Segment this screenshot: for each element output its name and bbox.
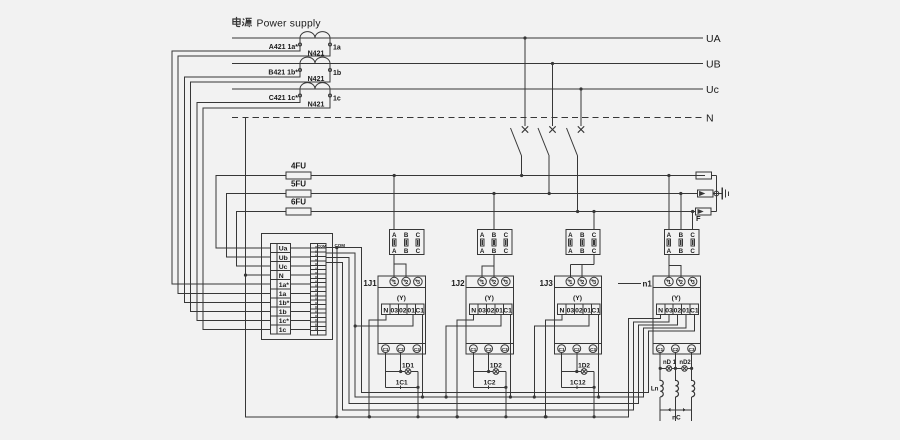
- svg-text:C1: C1: [559, 347, 565, 352]
- meter 1J3 terminals 1 2 3: [566, 277, 575, 286]
- svg-text:C3: C3: [502, 347, 508, 352]
- svg-text:02: 02: [575, 307, 583, 314]
- node 1J2 lamp node junctions: [504, 386, 507, 389]
- svg-text:N421: N421: [308, 102, 325, 109]
- wire QA to fuse line: [521, 156, 523, 176]
- svg-text:C3: C3: [689, 347, 695, 352]
- svg-text:02: 02: [674, 307, 682, 314]
- svg-text:1c: 1c: [333, 96, 341, 103]
- svg-text:1C1: 1C1: [396, 380, 408, 387]
- svg-text:nD2: nD2: [679, 360, 691, 366]
- fuse test block n1: [664, 230, 698, 255]
- lamp nD2: [682, 366, 688, 372]
- svg-text:C3: C3: [414, 347, 420, 352]
- svg-text:1: 1: [393, 280, 396, 286]
- wire 1J1 block to terminals 1,2: [393, 255, 395, 278]
- meter n1 terminal row N 03 02 01 C1: [656, 304, 664, 314]
- wire QC to fuse line: [577, 156, 579, 212]
- wire COM bus 4 (strip to bottom bus to meter n1 terminal): [326, 263, 669, 410]
- wire phase UB bus: [232, 63, 703, 65]
- svg-text:UA: UA: [706, 33, 721, 45]
- svg-text:B: B: [492, 232, 497, 239]
- wire 5FU feed from terminal row Ub: [227, 194, 287, 258]
- node 1J1 01 riser junction: [354, 324, 357, 327]
- svg-text:N: N: [658, 307, 663, 314]
- svg-text:A: A: [392, 248, 397, 255]
- wire CT secondary 1c to terminal row: [203, 89, 330, 329]
- fuse 4FU: [286, 172, 311, 179]
- svg-text:C: C: [416, 232, 421, 239]
- svg-text:C: C: [504, 232, 509, 239]
- node phase tap QB: [551, 62, 554, 65]
- svg-text:B421 1b*: B421 1b*: [268, 70, 298, 77]
- svg-text:B: B: [679, 232, 684, 239]
- svg-text:N: N: [279, 273, 284, 280]
- svg-text:1c*: 1c*: [279, 318, 290, 325]
- svg-text:Ua: Ua: [279, 246, 288, 253]
- wire arrester F2 output: [713, 193, 717, 195]
- node feed tap 1J1: [393, 174, 396, 177]
- wire n1 block to terminal 1 and 2: [668, 255, 670, 278]
- svg-text:2: 2: [405, 280, 408, 286]
- svg-text:C1: C1: [690, 307, 699, 314]
- label n1 leader: [618, 283, 641, 285]
- inductor coil L3 of Ln: [692, 380, 695, 397]
- node 1J3 lamp node junctions: [593, 386, 596, 389]
- svg-text:1D2: 1D2: [490, 362, 502, 369]
- node 1J3 C1 bus junction: [597, 395, 600, 398]
- switch QC contact cross: [578, 126, 584, 132]
- wire 6FU feed from terminal row Uc: [237, 212, 287, 267]
- wire CT secondary 1c* to terminal row: [197, 89, 300, 320]
- meter n1 terminals C1 C2 C3: [656, 345, 664, 353]
- wire feed n1 phase B: [680, 194, 682, 230]
- svg-text:3: 3: [417, 280, 420, 286]
- wire 6FU output line: [311, 211, 696, 213]
- switch QB contact cross: [549, 126, 555, 132]
- node 1J3 N bus junction: [544, 415, 547, 418]
- svg-text:(Y): (Y): [485, 295, 494, 302]
- node A421 secondary terminal: [329, 43, 332, 46]
- svg-text:B: B: [580, 248, 585, 255]
- node n1 lamp row junctions: [659, 367, 662, 370]
- svg-text:C2: C2: [398, 347, 404, 352]
- svg-text:02: 02: [487, 307, 495, 314]
- node phase tap QA: [523, 36, 526, 39]
- svg-text:N: N: [383, 307, 388, 314]
- wire 1J2 lamp node to N bus: [505, 372, 507, 417]
- svg-text:C1: C1: [383, 347, 389, 352]
- svg-text:2: 2: [581, 280, 584, 286]
- lamp nD1: [666, 366, 672, 372]
- switch QC blade: [567, 128, 578, 156]
- node 1J1 C2 lamp junction: [399, 370, 402, 373]
- ground symbol: [722, 188, 728, 200]
- svg-text:B: B: [580, 232, 585, 239]
- svg-text:B: B: [679, 248, 684, 255]
- node 1J2 N bus junction: [456, 415, 459, 418]
- lamp 1D1: [405, 369, 411, 375]
- wire CT secondary 1b to terminal row: [191, 64, 331, 312]
- svg-text:Power supply: Power supply: [257, 19, 322, 30]
- lamp 1D2: [581, 369, 587, 375]
- wire QB to fuse line: [548, 156, 550, 194]
- node 1J1 C1 bus junction: [421, 395, 424, 398]
- node phase tap QC: [579, 87, 582, 90]
- meter 1J1 terminal row N 03 02 01 C1: [382, 304, 390, 314]
- fuse 6FU: [286, 208, 311, 215]
- svg-text:nC: nC: [672, 415, 681, 422]
- svg-text:1C12: 1C12: [570, 380, 586, 387]
- wire 1J1 C1 down: [385, 353, 387, 388]
- terminal strip COM row lines: [311, 247, 327, 249]
- wire feed 1J3 from fuse line to test block: [593, 212, 595, 230]
- svg-text:B: B: [404, 248, 409, 255]
- wire 1J3 lamp row: [562, 371, 582, 373]
- wire QB drop: [552, 64, 554, 126]
- svg-text:COM: COM: [317, 245, 326, 249]
- wire CT secondary 1a* to terminal row: [172, 38, 300, 284]
- meter 1J1 terminals 1 2 3: [390, 277, 399, 286]
- svg-text:N: N: [706, 113, 714, 125]
- svg-text:Uc: Uc: [279, 264, 288, 271]
- wire 1J1 lamp node to N bus: [417, 372, 419, 417]
- inductor coil L1 of Ln: [660, 380, 663, 397]
- svg-text:01: 01: [584, 307, 592, 314]
- svg-text:A: A: [667, 248, 672, 255]
- svg-text:5FU: 5FU: [291, 180, 306, 189]
- svg-text:C2: C2: [486, 347, 492, 352]
- svg-text:1b: 1b: [333, 70, 341, 77]
- meter 1J3 terminals C1 C2 C3: [558, 345, 566, 353]
- svg-text:1: 1: [569, 280, 572, 286]
- svg-text:03: 03: [478, 307, 486, 314]
- terminal strip COM wire stubs: [315, 246, 317, 331]
- inductor coil L2 of Ln: [675, 380, 678, 397]
- svg-text:02: 02: [399, 307, 407, 314]
- svg-text:1b: 1b: [279, 309, 287, 316]
- svg-text:1D1: 1D1: [402, 362, 414, 369]
- fuse 5FU: [286, 190, 311, 197]
- meter n1 terminals 1 2 3: [665, 277, 674, 286]
- terminal strip COM outline: [311, 244, 327, 336]
- wire 4FU feed from terminal row Ua: [216, 176, 286, 249]
- svg-text:1a: 1a: [333, 45, 341, 52]
- wire phase Uc bus: [232, 88, 703, 90]
- svg-text:4FU: 4FU: [291, 162, 306, 171]
- svg-text:(Y): (Y): [397, 295, 406, 302]
- wire feed n1 phase C: [692, 212, 694, 230]
- svg-text:Ub: Ub: [279, 255, 288, 262]
- wire feed 1J2 from fuse line to test block: [493, 194, 495, 230]
- fuse test block 1J3: [566, 230, 600, 255]
- wire n1 C3 down: [691, 353, 693, 381]
- current transformer B421 winding: [300, 57, 330, 63]
- wire 1J2 C1 down: [472, 353, 474, 388]
- svg-text:3: 3: [692, 280, 695, 286]
- node QA junction: [520, 174, 523, 177]
- svg-text:03: 03: [665, 307, 673, 314]
- node feed tap n1 phase C: [691, 210, 694, 213]
- svg-text:(Y): (Y): [672, 295, 681, 302]
- wire 1J3 block to terminals 1,2: [593, 255, 595, 265]
- meter 1J2 terminals C1 C2 C3: [470, 345, 478, 353]
- node feed tap 1J3: [592, 210, 595, 213]
- wire 1J2 cell N to N bus: [457, 315, 474, 417]
- wire 1J2 block to terminals 1,2: [493, 255, 495, 278]
- svg-text:C: C: [690, 248, 695, 255]
- wire COM bus 2 (strip to bottom bus to meter n1 terminal): [326, 253, 686, 397]
- node QB junction: [548, 192, 551, 195]
- wire COM bus 3 (strip to bottom bus to meter n1 terminal): [326, 258, 677, 404]
- meter 1J1 box: [378, 276, 425, 354]
- wire QA drop: [524, 38, 526, 126]
- node C421 secondary terminal: [329, 94, 332, 97]
- node N bus junctions: [368, 415, 371, 418]
- svg-text:N: N: [471, 307, 476, 314]
- meter 1J3 terminal row N 03 02 01 C1: [558, 304, 566, 314]
- wire 1J2 cell 01 to bus: [446, 315, 501, 398]
- wire feed n1 phase A: [668, 176, 670, 230]
- wire 1C2 link: [473, 386, 506, 388]
- svg-text:A: A: [480, 232, 485, 239]
- node feed tap n1 phase A: [667, 174, 670, 177]
- svg-text:6FU: 6FU: [291, 198, 306, 207]
- wire n1 C2 down: [674, 353, 676, 381]
- lamp 1D2: [493, 369, 499, 375]
- node 1J2 01 bus junction: [445, 395, 448, 398]
- svg-text:UB: UB: [706, 59, 721, 71]
- svg-text:1J1: 1J1: [363, 279, 377, 288]
- node 1J2 C2 lamp junction: [487, 370, 490, 373]
- wire 1J3 cell N to N bus: [545, 315, 562, 417]
- svg-text:1a: 1a: [279, 291, 287, 298]
- wire N drop to N bottom bus: [246, 118, 661, 417]
- n1 common tick marks: [667, 408, 670, 412]
- svg-text:1C2: 1C2: [484, 380, 496, 387]
- wire 1J1 cell 01 to riser: [355, 315, 413, 327]
- svg-text:C: C: [592, 248, 597, 255]
- svg-text:nD 1: nD 1: [663, 360, 677, 366]
- svg-text:Ln: Ln: [651, 386, 659, 393]
- svg-text:B: B: [492, 248, 497, 255]
- meter 1J1 terminals C1 C2 C3: [382, 345, 390, 353]
- svg-text:n1: n1: [643, 280, 653, 289]
- svg-text:1J3: 1J3: [539, 279, 553, 288]
- wire 1C1 link: [386, 386, 419, 388]
- node B421 polarity terminal: [299, 69, 302, 72]
- wire 5FU output line: [311, 193, 697, 195]
- svg-text:C2: C2: [574, 347, 580, 352]
- wire 1J2 lamp row: [473, 371, 493, 373]
- svg-text:(Y): (Y): [573, 295, 582, 302]
- wire 1J1 cell N to N bus: [369, 315, 386, 417]
- node 1J3 01 bus junction: [533, 395, 536, 398]
- node feed tap 1J2: [492, 192, 495, 195]
- node A421 polarity terminal: [299, 43, 302, 46]
- meter n1 box: [653, 276, 700, 354]
- label: power supply title (电源 drawn glyphs): [233, 17, 252, 27]
- wire n1 C1 down: [659, 353, 661, 381]
- wire arrester F1 output: [712, 175, 717, 177]
- wire CT secondary 1a to terminal row: [178, 38, 330, 293]
- wire 1J3 C1 down: [561, 353, 563, 388]
- svg-text:1: 1: [668, 280, 671, 286]
- node B421 secondary terminal: [329, 69, 332, 72]
- wire 1J1 cell C1 down to bus: [422, 315, 424, 398]
- node COM common junctions: [335, 246, 338, 249]
- wire phase UA bus: [232, 37, 703, 39]
- arrester F1: [696, 172, 712, 179]
- wire neutral N bus (dashed): [232, 117, 703, 119]
- node C421 polarity terminal: [299, 94, 302, 97]
- svg-text:C1: C1: [657, 347, 663, 352]
- current transformer A421 winding: [300, 32, 330, 38]
- terminal strip XT1 outline: [271, 244, 291, 335]
- svg-text:3: 3: [505, 280, 508, 286]
- svg-text:B: B: [404, 232, 409, 239]
- arrester F2: [697, 190, 713, 197]
- svg-text:C: C: [416, 248, 421, 255]
- wire feed 1J1 from fuse line to test block: [393, 176, 395, 230]
- wire COM bus 1 (strip to bottom bus to meter n1 terminal): [326, 248, 694, 393]
- wire n1 coil common: [660, 409, 691, 411]
- svg-text:C1: C1: [503, 307, 512, 314]
- svg-text:A: A: [667, 232, 672, 239]
- wire n1 stubs below: [659, 410, 661, 421]
- svg-text:C: C: [592, 232, 597, 239]
- terminal strip XT1 divider: [276, 244, 278, 335]
- svg-text:C421 1c*: C421 1c*: [269, 95, 298, 102]
- wire 4FU output line: [311, 175, 696, 177]
- arrester F3: [696, 208, 712, 215]
- switch QA blade: [511, 128, 522, 156]
- meter 1J2 terminal row N 03 02 01 C1: [470, 304, 478, 314]
- node N row tap: [244, 274, 247, 277]
- node 1J2 C1 bus junction: [509, 395, 512, 398]
- wire 1J3 cell 01 to bus: [534, 315, 589, 398]
- switch QA contact cross: [522, 126, 528, 132]
- wire 1J2 C2 down: [488, 353, 490, 372]
- svg-text:01: 01: [495, 307, 503, 314]
- svg-text:C: C: [690, 232, 695, 239]
- svg-text:2: 2: [493, 280, 496, 286]
- wire to ground: [719, 193, 722, 195]
- node feed tap n1 phase B: [679, 192, 682, 195]
- wire 1J2 cell C1 down to bus: [509, 315, 511, 398]
- svg-text:1D2: 1D2: [578, 362, 590, 369]
- svg-text:03: 03: [391, 307, 399, 314]
- svg-text:C1: C1: [470, 347, 476, 352]
- wire 1J1 C2 down: [400, 353, 402, 372]
- wire arrester F3 output: [711, 211, 716, 213]
- meter 1J2 terminals 1 2 3: [478, 277, 487, 286]
- svg-text:C: C: [504, 248, 509, 255]
- current transformer C421 winding: [300, 83, 330, 89]
- wire 1J3 C2 down: [576, 353, 578, 372]
- wire 1J1 lamp row: [386, 371, 406, 373]
- svg-text:A: A: [568, 248, 573, 255]
- svg-text:C1: C1: [591, 307, 600, 314]
- svg-text:01: 01: [682, 307, 690, 314]
- svg-text:C2: C2: [672, 347, 678, 352]
- node arrester common junction: [714, 191, 719, 196]
- svg-text:2: 2: [680, 280, 683, 286]
- wire QC drop: [580, 89, 582, 126]
- svg-text:01: 01: [407, 307, 415, 314]
- wire N stub into terminal row N: [246, 274, 271, 276]
- svg-text:1: 1: [481, 280, 484, 286]
- svg-text:N: N: [559, 307, 564, 314]
- svg-text:Uc: Uc: [706, 84, 719, 96]
- svg-text:C1: C1: [415, 307, 424, 314]
- svg-text:A: A: [480, 248, 485, 255]
- svg-text:03: 03: [567, 307, 575, 314]
- svg-text:1a*: 1a*: [279, 282, 290, 289]
- svg-text:C3: C3: [590, 347, 596, 352]
- svg-text:A: A: [568, 232, 573, 239]
- wire XT1 to COM strip links: [291, 247, 311, 249]
- terminal strip COM divider: [317, 244, 319, 336]
- meter 1J3 box: [554, 276, 601, 354]
- svg-text:1c: 1c: [279, 327, 287, 334]
- wire n1 lamp row: [660, 367, 666, 369]
- wire CT secondary 1b* to terminal row: [185, 64, 301, 303]
- node 1J1 lamp node junctions: [416, 386, 419, 389]
- wire arrester common: [715, 176, 717, 192]
- svg-text:3: 3: [593, 280, 596, 286]
- fuse test block 1J1: [390, 230, 424, 255]
- svg-text:1b*: 1b*: [279, 300, 290, 307]
- node QC junction: [576, 210, 579, 213]
- terminal strip XT1 row lines: [271, 252, 291, 254]
- meter 1J2 box: [466, 276, 513, 354]
- svg-text:F: F: [696, 214, 701, 223]
- svg-text:A: A: [392, 232, 397, 239]
- wire 1C12 link: [562, 386, 595, 388]
- node 1J3 C2 lamp junction: [575, 370, 578, 373]
- switch QB blade: [538, 128, 549, 156]
- wire 1J3 lamp node to N bus: [593, 372, 595, 417]
- node 1J1 N bus junction: [368, 415, 371, 418]
- svg-text:A421 1a*: A421 1a*: [269, 44, 298, 51]
- wire COM common to N bottom bus: [336, 248, 338, 417]
- terminal enclosure box: [262, 234, 333, 340]
- wire 1J3 cell C1 down to bus: [598, 315, 600, 398]
- fuse test block 1J2: [478, 230, 512, 255]
- svg-text:1J2: 1J2: [451, 279, 465, 288]
